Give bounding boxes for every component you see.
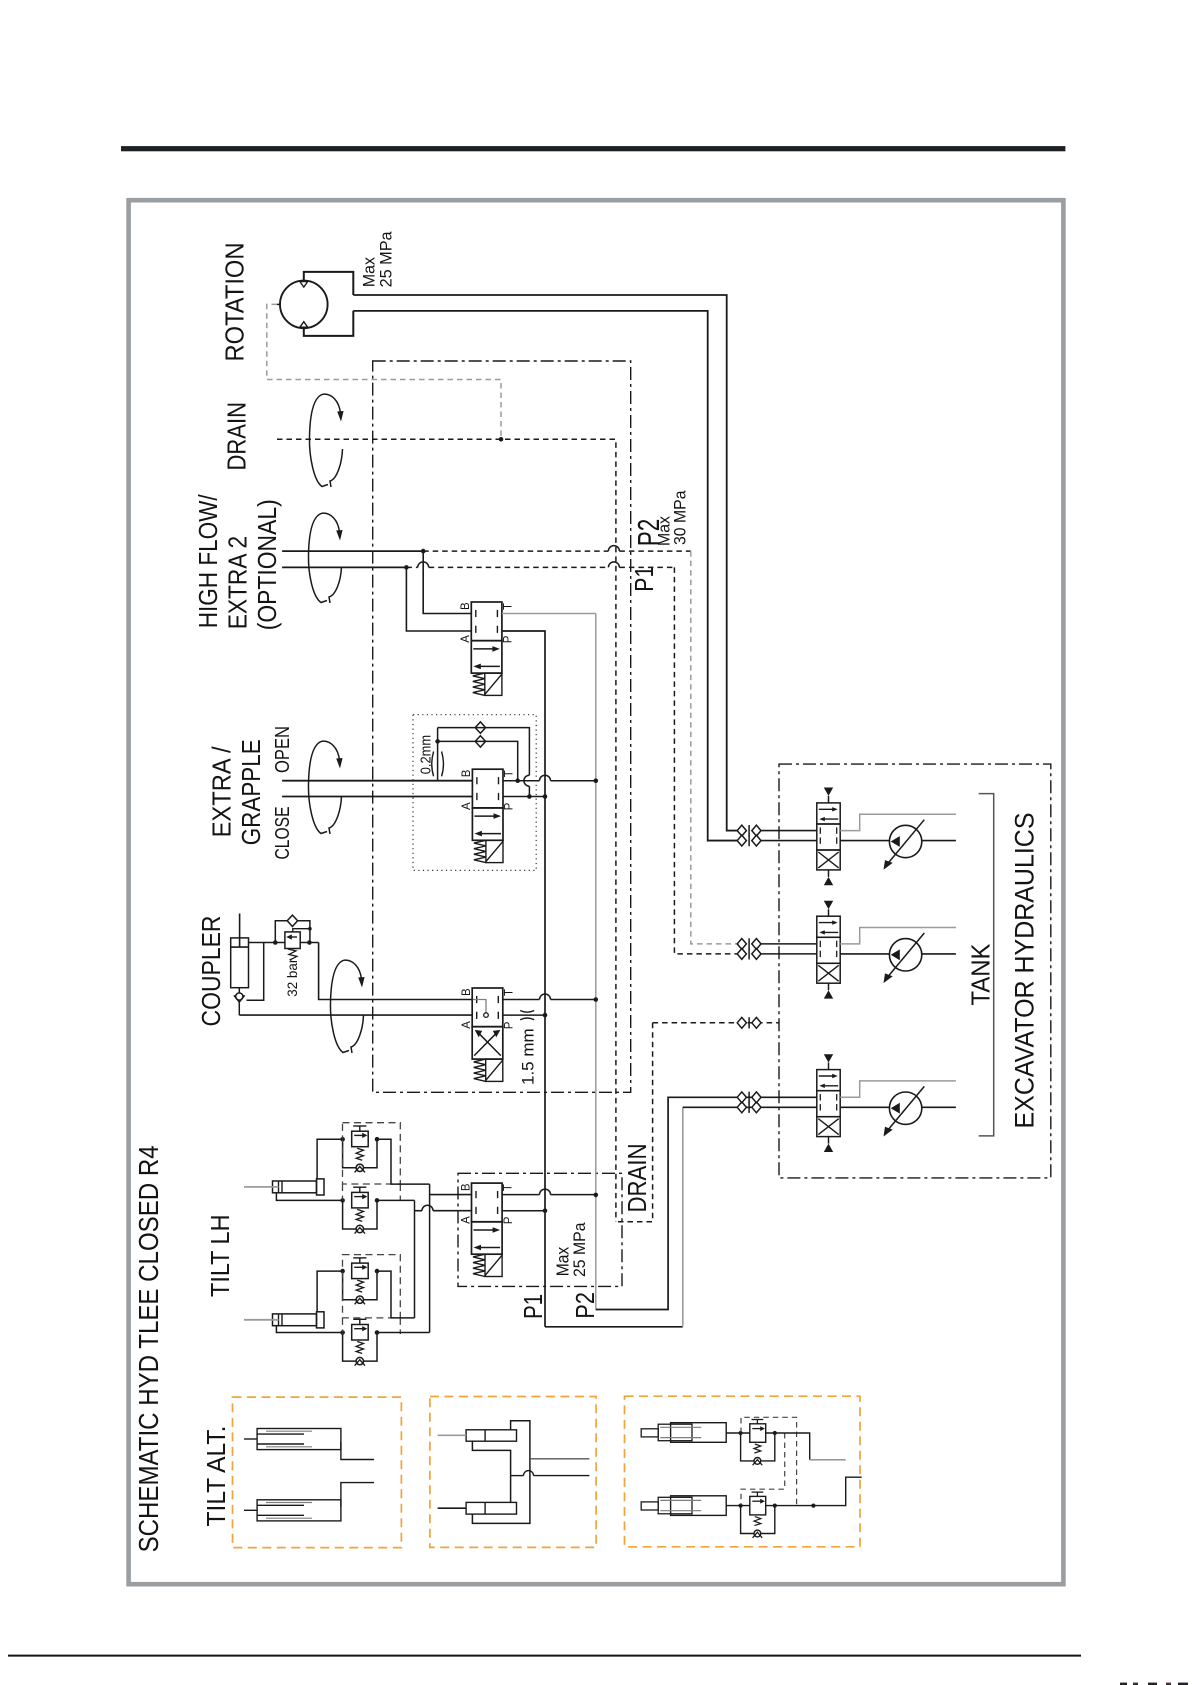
svg-text:P1: P1 <box>518 1294 548 1319</box>
quick coupler g1 line1 <box>737 825 746 836</box>
wire RA1 to B-feed <box>377 1139 430 1184</box>
alt3 R2 outlet <box>766 1477 862 1505</box>
tilt cylinder CYL2 <box>273 1314 317 1326</box>
alt3 cyl1 line <box>726 1432 750 1434</box>
tilt alt option box 1 <box>233 1397 402 1548</box>
svg-text:TILT ALT.: TILT ALT. <box>201 1426 231 1527</box>
hop V3-T over pressure rail <box>540 994 551 999</box>
svg-text:T: T <box>503 603 515 610</box>
wire RA4 to B-feed <box>377 1332 430 1334</box>
svg-text:T: T <box>503 1184 515 1191</box>
alt3 dashed enclosure R2 right <box>796 1489 798 1505</box>
svg-text:B: B <box>461 988 473 996</box>
svg-text:DRAIN: DRAIN <box>221 402 251 471</box>
wire to valve V1 port A <box>406 567 471 631</box>
svg-text:25 MPa: 25 MPa <box>571 1222 589 1277</box>
alt2 cylinder bottom <box>466 1502 516 1514</box>
alt3 dashed link <box>741 1433 785 1506</box>
svg-text:TILT LH: TILT LH <box>205 1215 235 1298</box>
wire EV2 top port to tank <box>840 928 956 944</box>
svg-text:Max: Max <box>552 1247 572 1277</box>
svg-text:A: A <box>460 635 472 643</box>
alt2 manifold rail <box>472 1421 530 1524</box>
wire coupler to valve B <box>319 943 473 1000</box>
A-feed rail <box>414 1200 416 1318</box>
hop P1 over B-feed <box>418 562 429 568</box>
wire RA3 to A-feed <box>377 1271 415 1318</box>
tilt alt option box 3 <box>625 1396 861 1547</box>
svg-text:ROTATION: ROTATION <box>219 243 249 362</box>
svg-text:P: P <box>504 1021 516 1029</box>
hop V4-T over pressure rail <box>540 1189 551 1195</box>
alt2 line 2 <box>511 1475 524 1477</box>
svg-text:A: A <box>460 1216 472 1224</box>
wire cyl1 bottom to RA2 <box>276 1193 342 1201</box>
wire V1 P to pressure rail <box>502 631 545 1327</box>
tilt relief assembly RA1 <box>359 1126 361 1131</box>
tank bracket <box>979 794 994 1136</box>
junction bypass right <box>307 940 312 945</box>
alt3 cyl2 line <box>726 1505 750 1507</box>
alt1 cylinder B <box>257 1500 341 1521</box>
svg-text:B: B <box>461 769 473 777</box>
orifice 1.5mm symbol <box>520 1011 534 1013</box>
extra/grapple dotted enclosure <box>413 715 536 871</box>
wire cyl2 top to RA3 <box>317 1271 343 1312</box>
check valve D2 <box>475 736 485 747</box>
alt1 cylinder A outlet <box>341 1442 374 1460</box>
svg-text:P: P <box>503 1216 515 1224</box>
alt3 junction <box>811 1504 815 1508</box>
wire V3 P with 1.5mm orifice <box>503 1014 545 1016</box>
junction V3 T rail <box>594 997 599 1002</box>
wire drain line (dashed) <box>277 439 616 1221</box>
svg-text:32 bar: 32 bar <box>284 958 300 996</box>
check valve wire 1 <box>438 728 530 776</box>
valve-block boundary (dash-dot) <box>373 361 631 1092</box>
wire tilt valve A <box>415 1210 423 1212</box>
svg-text:DRAIN: DRAIN <box>622 1144 652 1213</box>
svg-text:P: P <box>503 635 515 643</box>
svg-text:B: B <box>460 1183 472 1191</box>
alt3 telescopic cylinder T2 <box>671 1496 727 1516</box>
svg-text:HIGH FLOW/: HIGH FLOW/ <box>193 494 223 629</box>
svg-text:TANK: TANK <box>968 944 996 1006</box>
svg-text:25 MPa: 25 MPa <box>378 231 396 288</box>
svg-text:SCHEMATIC HYD TLEE CLOSED R4: SCHEMATIC HYD TLEE CLOSED R4 <box>133 1145 164 1552</box>
junction V3 P rail <box>543 1013 548 1018</box>
wire P1 bottom loop <box>545 1326 683 1328</box>
tilt relief assembly RA3 <box>359 1258 361 1263</box>
excavator pump P3 <box>840 1106 956 1108</box>
svg-text:COUPLER: COUPLER <box>196 916 226 1027</box>
valve V1 high-flow/extra2 4/2 solenoid valve <box>471 602 502 641</box>
svg-text:(OPTIONAL): (OPTIONAL) <box>252 499 282 630</box>
junction high-flow B <box>421 549 426 554</box>
wire excavator g3 bottom line <box>683 1106 817 1108</box>
svg-text:OPEN: OPEN <box>271 726 294 773</box>
junction V4 T rail <box>594 1193 599 1198</box>
junction bypass left <box>273 940 278 945</box>
svg-text:A: A <box>461 802 473 810</box>
tilt option box2 tails <box>342 1318 344 1334</box>
schematic frame <box>129 200 1064 1584</box>
tilt relief assembly RA4 <box>359 1319 361 1324</box>
wire g2 couplers to valve <box>761 943 817 945</box>
B-feed rail <box>429 1184 431 1332</box>
alt2 cyl-top bottom port <box>472 1441 510 1502</box>
wire cyl2 bottom to RA4 <box>276 1326 342 1333</box>
wire high-flow line A (solid) <box>282 566 406 568</box>
svg-text:T: T <box>504 770 516 777</box>
alt1 cylinder B outlet <box>341 1483 374 1507</box>
wire cyl1 top to RA1 <box>317 1139 343 1179</box>
excavator pump P1 <box>840 840 956 842</box>
wire V3 T to tank rail <box>503 999 540 1001</box>
wire V4 T to tank rail <box>502 1194 539 1196</box>
junction high-flow A <box>404 565 409 570</box>
valve V3 closed-position bleed <box>473 1000 486 1013</box>
wire P1 drop (dashed) <box>674 567 737 954</box>
coupler relief pilot <box>293 929 310 932</box>
junction wire1/P <box>527 794 532 799</box>
svg-text:A: A <box>461 1021 473 1029</box>
junction V2 P rail <box>543 794 548 799</box>
high flow rotary joint symbol <box>308 513 327 602</box>
alt1 cylinder A <box>257 1429 341 1450</box>
wire motor port B to supply <box>304 311 354 336</box>
alt3 relief assembly R1 <box>756 1420 758 1424</box>
excavator hydraulics boundary (dash-dot) <box>779 764 1051 1178</box>
svg-text:P: P <box>504 802 516 810</box>
tilt option dashed box 2 <box>343 1255 401 1318</box>
drain rotary joint symbol <box>309 394 328 486</box>
alt3 telescopic cylinder T1 <box>671 1423 727 1443</box>
quick coupler g3 bottom <box>737 1102 746 1113</box>
coupler relief bypass check <box>275 921 287 943</box>
wire rotation supply line 2 <box>353 311 737 841</box>
wire coupler to valve A <box>239 1014 472 1016</box>
valve V3 coupler 4/2 solenoid valve <box>472 988 503 1027</box>
check valve wire 2 <box>438 741 518 780</box>
svg-text:CLOSE: CLOSE <box>271 807 294 860</box>
alt2 line 1 <box>530 1458 590 1460</box>
hop P1 over drain <box>608 562 619 568</box>
wire RA2 to A-feed <box>377 1199 415 1201</box>
quick coupler g1 line2 <box>737 835 746 846</box>
svg-text:30 MPa: 30 MPa <box>672 490 690 545</box>
svg-text:Max: Max <box>361 256 379 287</box>
wire V2 T to tank rail <box>503 780 540 782</box>
junction V2 T rail <box>594 778 599 783</box>
wire excavator g3 bottom feed (gray riser) <box>682 1107 684 1327</box>
pilot line to check <box>247 943 264 1001</box>
extra rotary joint symbol <box>308 741 327 833</box>
svg-text:P1: P1 <box>629 566 659 592</box>
coupler cylinder CY1 <box>231 938 249 988</box>
hop P2 over drain <box>608 546 619 552</box>
svg-text:T: T <box>503 989 515 996</box>
pilot check ball under cylinder <box>238 988 240 993</box>
coupler rotary joint symbol <box>330 960 349 1052</box>
tank rail (black lower) <box>596 1097 817 1309</box>
excavator valve EV3 <box>817 1070 840 1091</box>
alt3 relief assembly R2 <box>756 1492 758 1496</box>
wire motor port A to supply <box>304 272 354 295</box>
wire EV3 top port to tank <box>840 1081 956 1097</box>
quick coupler g2 line2 <box>737 949 746 960</box>
wire high-flow line B (solid) <box>282 550 423 552</box>
wire EV1 top port to tank <box>840 814 956 830</box>
check valve D1 <box>475 722 485 733</box>
alt3 dashed enclosure R1 <box>741 1417 797 1489</box>
svg-text:EXTRA 2: EXTRA 2 <box>222 536 252 630</box>
wire P1 dashed run <box>406 566 417 568</box>
junction V4 P rail <box>543 1208 548 1213</box>
wire extra line B (solid) <box>282 780 472 782</box>
excavator pump P2 <box>840 953 956 955</box>
wire drain to excavator (dashed) <box>653 1022 779 1024</box>
svg-text:B: B <box>460 602 472 610</box>
rotation motor port triangles <box>300 282 308 288</box>
tilt alt option box 2 <box>430 1397 596 1548</box>
drain label dashed box <box>616 1023 653 1222</box>
quick coupler on drain line <box>737 1017 746 1028</box>
svg-text:EXCAVATOR HYDRAULICS: EXCAVATOR HYDRAULICS <box>1010 813 1040 1129</box>
rotation motor M1 circle <box>280 281 328 329</box>
tank rail (gray upper) <box>595 614 597 1310</box>
wire V2 P to pressure rail <box>503 796 545 798</box>
junction pilot <box>308 927 312 931</box>
footer text remnant <box>1120 1683 1127 1685</box>
quick coupler g2 line1 <box>737 939 746 950</box>
alt2 cylinder top <box>466 1430 516 1441</box>
tilt valve boundary (dash-dot) <box>458 1173 622 1286</box>
excavator valve EV1 <box>817 803 840 824</box>
wire P2 drop (gray dashed) <box>691 551 738 944</box>
wire V1 T to tank rail (gray) <box>502 613 596 615</box>
wire V4 P to pressure rail <box>502 1210 545 1212</box>
tilt option box1 tails <box>342 1184 344 1201</box>
wire motor case drain (gray dashed) <box>277 303 280 305</box>
junction wire2/T <box>515 778 520 783</box>
wire to valve V1 port B <box>423 551 471 613</box>
hop tilt-A over B-feed <box>422 1205 433 1211</box>
tilt cylinder CYL1 <box>273 1181 317 1193</box>
svg-text:EXTRA /: EXTRA / <box>207 746 237 838</box>
wire tilt valve B <box>430 1194 472 1196</box>
alt2 hop <box>524 1471 534 1476</box>
tilt option dashed box 1 <box>343 1123 401 1184</box>
header rule bar <box>121 146 1065 151</box>
svg-text:GRAPPLE: GRAPPLE <box>236 739 266 845</box>
hop V2-T over pressure rail <box>540 775 551 780</box>
wire g1 couplers to valve <box>761 830 817 832</box>
coupler relief RV1 32bar <box>249 942 285 944</box>
quick coupler g3 top <box>737 1092 746 1103</box>
wire P2 dashed run <box>423 550 608 552</box>
hop wire1 over T line <box>524 775 530 786</box>
tilt relief assembly RA2 <box>359 1187 361 1192</box>
footer rule <box>8 1655 1081 1657</box>
valve V2 extra/grapple 4/2 solenoid valve <box>472 769 503 808</box>
wire rotation supply line 1 <box>353 295 737 831</box>
excavator valve EV2 <box>817 916 840 937</box>
alt3 R1 outlet <box>766 1433 810 1460</box>
wire extra line A (solid) <box>282 796 472 798</box>
valve V4 tilt 4/2 solenoid valve <box>472 1183 503 1222</box>
svg-text:1.5 mm: 1.5 mm <box>519 1028 538 1085</box>
junction drain/motor-drain <box>499 437 504 442</box>
junction orifice/wire2 <box>435 739 440 744</box>
orifice 0.2mm on pilot line <box>437 728 439 781</box>
